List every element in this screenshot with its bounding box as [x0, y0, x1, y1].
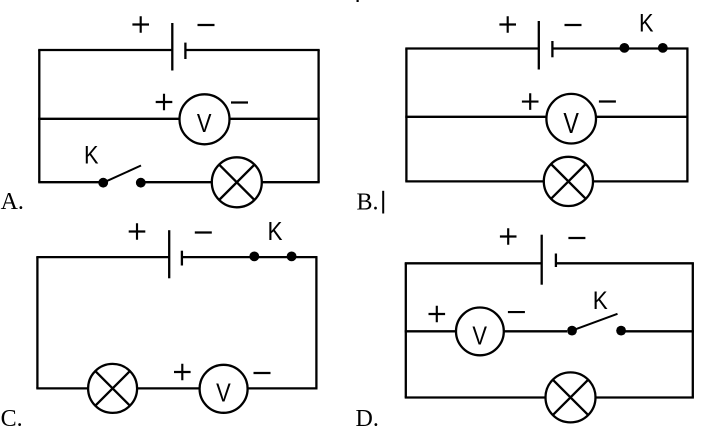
- svg-text:D.: D.: [356, 406, 379, 432]
- svg-text:V: V: [216, 378, 231, 408]
- svg-text:V: V: [563, 108, 579, 140]
- svg-text:V: V: [472, 321, 487, 351]
- svg-text:K: K: [593, 287, 608, 315]
- svg-text:A.: A.: [1, 189, 24, 215]
- svg-text:K: K: [84, 141, 99, 169]
- svg-text:V: V: [197, 108, 212, 138]
- svg-text:C.: C.: [1, 406, 23, 432]
- svg-text:B.: B.: [357, 190, 379, 216]
- svg-text:K: K: [639, 10, 654, 38]
- svg-text:K: K: [268, 218, 283, 246]
